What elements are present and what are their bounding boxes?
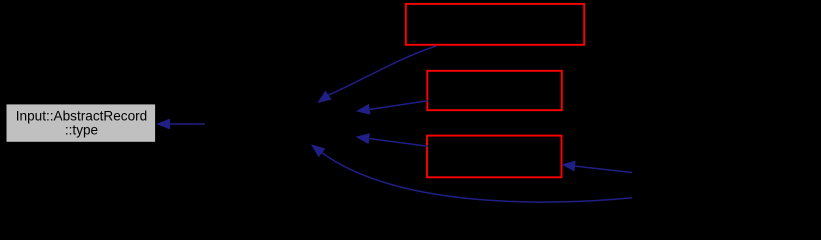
edge middle -> Input::AbstractRecord::type xyxy=(156,119,205,130)
node right (black on black, invisible) xyxy=(632,165,818,205)
edge N3 -> middle xyxy=(356,133,428,146)
svg-text:Input::AbstractRecord: Input::AbstractRecord xyxy=(16,108,147,123)
edge right -> N3 xyxy=(561,161,632,173)
node middle (black on black, invisible caller) xyxy=(205,104,357,145)
edge N2 -> middle xyxy=(356,101,428,115)
node Input::AbstractRecord::type (grey, current) xyxy=(7,104,156,141)
node N3 (red truncated, bottom) xyxy=(427,136,562,178)
edge N1 -> middle xyxy=(317,46,436,103)
edge right -> middle (long curve) xyxy=(311,144,632,202)
svg-text:::type: ::type xyxy=(65,123,98,138)
node N2 (red truncated, middle) xyxy=(427,71,562,110)
node N1 (red truncated, top) xyxy=(406,4,584,45)
